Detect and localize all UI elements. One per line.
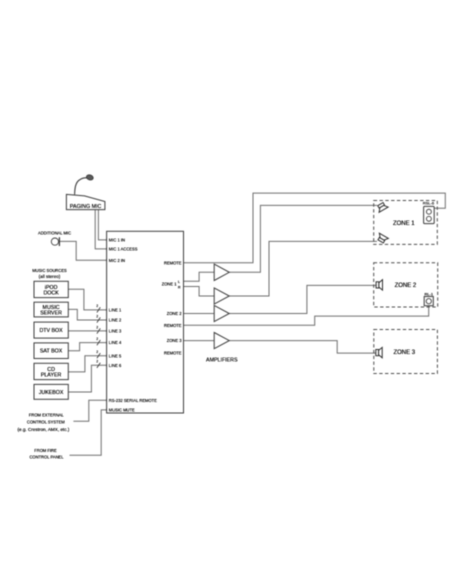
svg-text:2: 2 bbox=[96, 337, 98, 341]
svg-text:CONTROL SYSTEM: CONTROL SYSTEM bbox=[27, 420, 65, 425]
svg-text:ZONE 1: ZONE 1 bbox=[393, 221, 415, 227]
svg-text:ZONE 3: ZONE 3 bbox=[167, 338, 183, 343]
svg-text:RS-232 SERIAL REMOTE: RS-232 SERIAL REMOTE bbox=[109, 398, 157, 403]
svg-text:R: R bbox=[178, 285, 181, 289]
svg-text:2: 2 bbox=[96, 314, 98, 318]
svg-text:LINE 4: LINE 4 bbox=[109, 340, 122, 345]
svg-text:LINE 1: LINE 1 bbox=[109, 308, 122, 313]
svg-text:(e.g. Crestron, AMX, etc.): (e.g. Crestron, AMX, etc.) bbox=[17, 427, 69, 432]
svg-text:LINE 5: LINE 5 bbox=[109, 353, 122, 358]
svg-text:FROM EXTERNAL: FROM EXTERNAL bbox=[29, 413, 65, 418]
svg-text:ZONE 2: ZONE 2 bbox=[167, 311, 183, 316]
svg-text:2: 2 bbox=[96, 360, 98, 364]
svg-text:REMOTE: REMOTE bbox=[164, 323, 182, 328]
svg-text:MUSIC MUTE: MUSIC MUTE bbox=[109, 408, 135, 413]
svg-text:ADDITIONAL MIC: ADDITIONAL MIC bbox=[38, 231, 71, 236]
svg-text:2: 2 bbox=[96, 304, 98, 308]
svg-text:MIC 2 IN: MIC 2 IN bbox=[109, 258, 125, 263]
svg-text:RSL-6: RSL-6 bbox=[423, 201, 435, 206]
svg-text:AMPLIFIERS: AMPLIFIERS bbox=[206, 358, 238, 364]
svg-text:REMOTE: REMOTE bbox=[164, 260, 182, 265]
svg-text:ZONE 1: ZONE 1 bbox=[162, 281, 178, 286]
svg-text:MIC 1 IN: MIC 1 IN bbox=[109, 238, 125, 243]
svg-text:PLAYER: PLAYER bbox=[41, 373, 62, 379]
svg-text:LINE 3: LINE 3 bbox=[109, 329, 122, 334]
svg-text:JUKEBOX: JUKEBOX bbox=[39, 390, 64, 396]
svg-text:DTV BOX: DTV BOX bbox=[39, 328, 63, 334]
svg-text:ZONE 3: ZONE 3 bbox=[393, 350, 415, 356]
svg-text:MUSIC SOURCES: MUSIC SOURCES bbox=[32, 268, 67, 273]
svg-text:CONTROL PANEL: CONTROL PANEL bbox=[29, 455, 64, 460]
svg-text:LINE 2: LINE 2 bbox=[109, 318, 122, 323]
svg-text:(all stereo): (all stereo) bbox=[39, 274, 61, 279]
svg-text:SAT BOX: SAT BOX bbox=[40, 349, 63, 355]
svg-text:DOCK: DOCK bbox=[43, 291, 59, 297]
svg-text:FROM FIRE: FROM FIRE bbox=[34, 448, 57, 453]
svg-text:2: 2 bbox=[96, 325, 98, 329]
svg-text:RL-1: RL-1 bbox=[424, 291, 433, 296]
svg-text:SERVER: SERVER bbox=[40, 311, 62, 317]
svg-text:L: L bbox=[178, 280, 180, 284]
svg-text:PAGING MIC: PAGING MIC bbox=[70, 204, 102, 210]
svg-text:LINE 6: LINE 6 bbox=[109, 363, 122, 368]
svg-text:2: 2 bbox=[96, 350, 98, 354]
svg-text:REMOTE: REMOTE bbox=[164, 351, 182, 356]
svg-text:ZONE 2: ZONE 2 bbox=[395, 283, 417, 289]
svg-text:MIC 1 ACCESS: MIC 1 ACCESS bbox=[109, 247, 138, 252]
